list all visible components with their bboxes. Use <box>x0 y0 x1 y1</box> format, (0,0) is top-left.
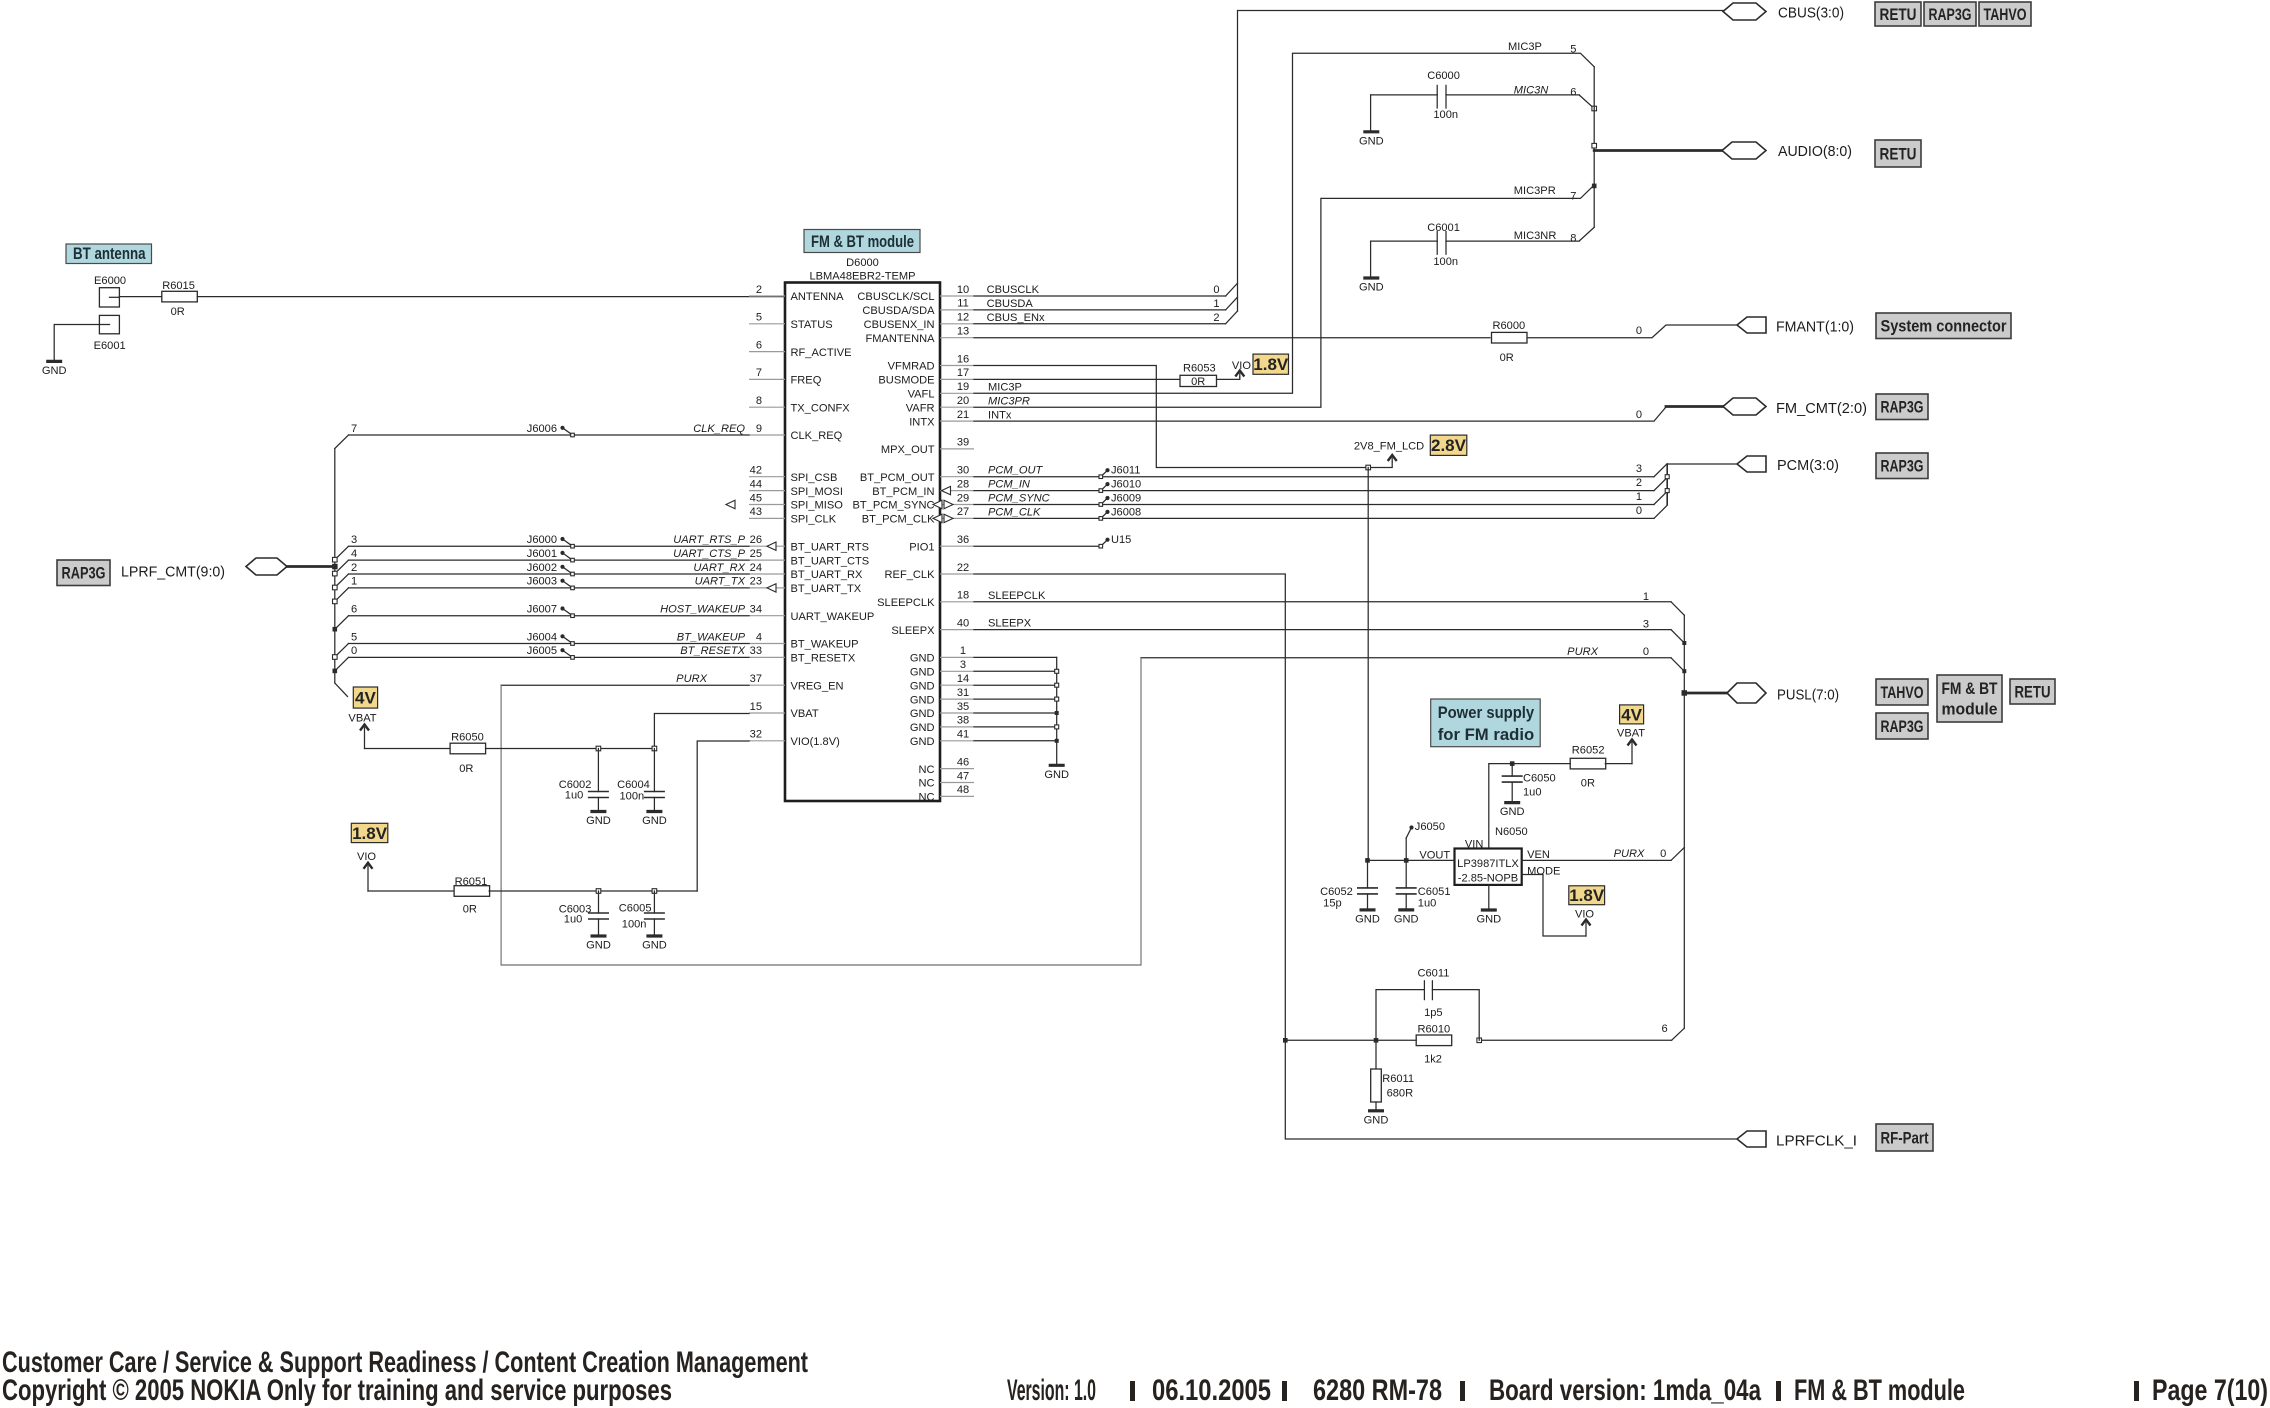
wire GND pins to ground <box>974 657 1059 765</box>
node LPRFCLK_I <box>1737 1131 1766 1147</box>
svg-text:R6052: R6052 <box>1572 745 1605 757</box>
svg-text:25: 25 <box>750 548 762 560</box>
svg-text:C6000: C6000 <box>1427 70 1460 82</box>
svg-text:1: 1 <box>1636 491 1642 503</box>
svg-text:J6007: J6007 <box>527 604 557 616</box>
pin 15 VBAT <box>749 701 819 720</box>
svg-text:GND: GND <box>642 940 667 952</box>
svg-text:3: 3 <box>960 659 966 671</box>
svg-text:module: module <box>1942 701 1998 719</box>
RETU label (AUDIO) <box>1875 140 1921 167</box>
svg-text:REF_CLK: REF_CLK <box>885 569 936 581</box>
wire R6010 left to filter node <box>1285 1039 1416 1041</box>
wire R6011 to ground <box>1375 1102 1377 1111</box>
svg-text:SPI_CLK: SPI_CLK <box>791 514 837 526</box>
svg-text:1u0: 1u0 <box>565 790 584 802</box>
svg-text:9: 9 <box>756 423 762 435</box>
power flag 1.8V (R6053) <box>1253 354 1289 374</box>
svg-text:6: 6 <box>351 604 357 616</box>
svg-text:0: 0 <box>351 645 357 657</box>
svg-text:7: 7 <box>1570 191 1576 203</box>
power flag 1.8V (left) <box>351 823 388 842</box>
power VIO arrow (R6053) <box>1239 374 1241 378</box>
svg-text:CBUSDA: CBUSDA <box>987 298 1034 310</box>
wire CBUSCLK (bit 0) <box>974 283 1238 296</box>
ground (N6050) <box>1481 908 1497 911</box>
svg-text:STATUS: STATUS <box>791 319 833 331</box>
svg-text:29: 29 <box>957 492 969 504</box>
svg-text:2.8V: 2.8V <box>1431 436 1467 455</box>
pin 31 GND <box>910 687 974 706</box>
ground (C6003) <box>591 934 607 937</box>
svg-text:FMANTENNA: FMANTENNA <box>865 333 935 345</box>
svg-text:ANTENNA: ANTENNA <box>791 291 845 303</box>
svg-text:100n: 100n <box>620 790 645 802</box>
node AUDIO(8:0) <box>1594 149 1722 152</box>
svg-text:BT_PCM_IN: BT_PCM_IN <box>872 486 934 498</box>
capacitor C6001 100n <box>1371 222 1595 268</box>
wire PCM_CLK <box>974 505 1667 519</box>
wire UART_CTS_P (bit 4) <box>333 548 750 576</box>
pin 1 GND <box>910 645 974 664</box>
wire SLEEPCLK (bit 1) <box>974 590 1684 615</box>
svg-text:HOST_WAKEUP: HOST_WAKEUP <box>660 604 745 616</box>
TAHVO label (CBUS) <box>1979 2 2031 26</box>
pin 21 INTX <box>909 409 974 428</box>
svg-text:100n: 100n <box>1433 256 1458 268</box>
svg-text:J6001: J6001 <box>527 548 557 560</box>
svg-text:GND: GND <box>910 653 935 665</box>
svg-text:18: 18 <box>957 590 969 602</box>
svg-text:0R: 0R <box>459 763 473 775</box>
test pad J6000 <box>527 534 575 548</box>
pin 23 direction arrow <box>767 584 776 592</box>
svg-text:PCM_SYNC: PCM_SYNC <box>988 493 1051 505</box>
svg-text:35: 35 <box>957 701 969 713</box>
capacitor C6011 1p5 <box>1376 967 1479 1040</box>
svg-text:MIC3P: MIC3P <box>1508 41 1542 53</box>
power flag 4V (left) <box>353 687 377 708</box>
RAP3G label (LPRF_CMT) <box>57 560 110 586</box>
wire E6001 to ground <box>54 325 99 362</box>
pin 27 direction arrows <box>933 514 942 522</box>
svg-text:680R: 680R <box>1387 1088 1414 1100</box>
svg-text:MIC3N: MIC3N <box>1514 84 1550 96</box>
svg-text:RETU: RETU <box>1880 6 1917 24</box>
svg-text:PCM_CLK: PCM_CLK <box>988 506 1041 518</box>
svg-text:UART_RX: UART_RX <box>693 562 745 574</box>
test pad J6002 <box>527 562 575 576</box>
wire MODE to VIO <box>1522 875 1586 937</box>
svg-text:N6050: N6050 <box>1495 826 1528 838</box>
wire FMANTENNA (pin13) <box>974 337 1490 339</box>
svg-text:GND: GND <box>1359 282 1384 294</box>
wire SLEEPX (bit 3) <box>974 618 1686 645</box>
svg-text:PCM_IN: PCM_IN <box>988 479 1031 491</box>
bus CBUS vertical + top run <box>1238 11 1724 312</box>
op-amp D6000 LBMA48EBR2-TEMP main IC body <box>785 257 940 801</box>
svg-text:GND: GND <box>1500 806 1525 818</box>
svg-text:32: 32 <box>750 729 762 741</box>
svg-text:42: 42 <box>750 465 762 477</box>
svg-text:BT_PCM_SYNC: BT_PCM_SYNC <box>853 500 935 512</box>
pin 13 FMANTENNA <box>865 326 974 345</box>
svg-text:FM_CMT(2:0): FM_CMT(2:0) <box>1776 400 1867 417</box>
svg-text:RF-Part: RF-Part <box>1881 1129 1929 1147</box>
capacitor C6002 1u0 <box>559 749 609 812</box>
svg-text:TX_CONFX: TX_CONFX <box>791 402 851 414</box>
antenna pad E6000 <box>94 275 126 307</box>
svg-text:SPI_MISO: SPI_MISO <box>791 500 844 512</box>
pin 41 GND <box>910 729 974 748</box>
RAP3G label (PUSL) <box>1876 713 1928 739</box>
svg-text:VBAT: VBAT <box>791 708 819 720</box>
ground (C6051) <box>1398 908 1414 911</box>
svg-text:47: 47 <box>957 770 969 782</box>
wire PURX routing loop <box>501 658 1141 965</box>
svg-text:J6009: J6009 <box>1111 493 1141 505</box>
svg-text:BT antenna: BT antenna <box>73 244 146 263</box>
test pad J6003 <box>527 576 575 590</box>
svg-text:UART_CTS_P: UART_CTS_P <box>673 548 746 560</box>
wire MIC3P (VAFL pin19) <box>974 41 1594 394</box>
svg-text:1.8V: 1.8V <box>1253 355 1289 374</box>
svg-text:RETU: RETU <box>2015 683 2051 701</box>
pin 36 PIO1 <box>909 534 974 553</box>
svg-text:33: 33 <box>750 645 762 657</box>
svg-text:6280 RM-78: 6280 RM-78 <box>1313 1374 1442 1407</box>
wire UART_TX (bit 1) <box>333 576 750 604</box>
svg-text:RAP3G: RAP3G <box>1929 6 1972 24</box>
ground (C6001) <box>1363 276 1379 279</box>
wire UART_RTS_P (bit 3) <box>333 534 750 562</box>
svg-text:21: 21 <box>957 409 969 421</box>
pin 30 BT_PCM_OUT <box>860 465 974 484</box>
resistor R6000 0R <box>1492 320 1528 364</box>
svg-text:23: 23 <box>750 576 762 588</box>
svg-text:FMANT(1:0): FMANT(1:0) <box>1776 319 1854 336</box>
ground (C6050) <box>1504 801 1520 804</box>
svg-text:PURX: PURX <box>1614 848 1645 860</box>
wire MIC3PR (VAFR pin20) <box>974 184 1597 408</box>
svg-text:for FM radio: for FM radio <box>1438 725 1535 744</box>
svg-text:20: 20 <box>957 395 969 407</box>
power flag 2.8V <box>1430 435 1467 455</box>
svg-text:3: 3 <box>1643 619 1649 631</box>
pin 3 GND <box>910 659 974 678</box>
wire VFMRAD to 2V8_FM_LCD rail <box>974 366 1368 468</box>
svg-text:J6010: J6010 <box>1111 479 1141 491</box>
svg-text:GND: GND <box>1044 769 1069 781</box>
pin 14 GND <box>910 673 974 692</box>
svg-text:7: 7 <box>756 367 762 379</box>
svg-text:CLK_REQ: CLK_REQ <box>693 423 745 435</box>
wire UART_RX (bit 2) <box>333 562 750 590</box>
svg-text:VIO: VIO <box>357 851 376 863</box>
node PCM(3:0) <box>1667 463 1737 465</box>
svg-text:NC: NC <box>918 792 934 804</box>
wire R6000 to FMANT <box>1528 325 1737 338</box>
svg-text:C6050: C6050 <box>1523 772 1556 784</box>
svg-text:BT_RESETX: BT_RESETX <box>680 645 745 657</box>
pin 29 BT_PCM_SYNC <box>853 492 975 511</box>
antenna pad E6001 <box>94 315 126 352</box>
svg-text:BT_WAKEUP: BT_WAKEUP <box>791 639 859 651</box>
ground (C6002) <box>590 810 606 813</box>
svg-text:NC: NC <box>918 764 934 776</box>
svg-text:C6005: C6005 <box>619 902 652 914</box>
bus AUDIO vertical <box>1593 67 1595 228</box>
svg-text:0: 0 <box>1636 409 1642 421</box>
ground (C6052) <box>1360 908 1376 911</box>
svg-text:FM & BT module: FM & BT module <box>1794 1374 1965 1407</box>
svg-text:1.8V: 1.8V <box>1569 886 1605 905</box>
wire R6051 to VIO pin <box>489 890 697 892</box>
wire R6053 to VIO <box>1217 377 1240 379</box>
pin 12 CBUSENX_IN <box>864 312 974 331</box>
svg-text:-2.85-NOPB: -2.85-NOPB <box>1458 873 1518 885</box>
svg-text:45: 45 <box>750 492 762 504</box>
svg-text:GND: GND <box>1359 135 1384 147</box>
wire C6001 to ground <box>1370 241 1372 278</box>
pin 33 BT_RESETX <box>749 645 856 664</box>
pin 39 MPX_OUT <box>881 437 974 456</box>
resistor R6052 0R <box>1570 745 1606 790</box>
ground (D6000) <box>1049 764 1065 767</box>
svg-text:R6015: R6015 <box>162 280 195 292</box>
svg-text:31: 31 <box>957 687 969 699</box>
svg-text:GND: GND <box>910 736 935 748</box>
test pad J6006 <box>527 423 575 437</box>
svg-text:GND: GND <box>910 694 935 706</box>
svg-text:SLEEPCLK: SLEEPCLK <box>877 597 935 609</box>
pin 44 SPI_MOSI <box>749 478 843 497</box>
pin 5 STATUS <box>749 312 833 331</box>
svg-text:RAP3G: RAP3G <box>1881 718 1924 736</box>
svg-text:44: 44 <box>750 478 762 490</box>
pin 26 direction arrow <box>767 542 776 550</box>
pin 48 NC <box>918 784 974 803</box>
pin 6 RF_ACTIVE <box>749 339 852 358</box>
svg-text:3: 3 <box>351 534 357 546</box>
svg-text:BT_UART_CTS: BT_UART_CTS <box>791 555 870 567</box>
wire CBUSDA (bit 1) <box>974 297 1238 310</box>
wire PCM_OUT <box>974 463 1667 477</box>
pin 38 GND <box>910 715 974 734</box>
node PUSL(7:0) <box>1684 692 1727 695</box>
wire BT_RESETX (bit 0) <box>333 645 750 673</box>
svg-text:15: 15 <box>750 701 762 713</box>
test pad J6050 <box>1406 821 1445 838</box>
svg-text:36: 36 <box>957 534 969 546</box>
svg-text:PURX: PURX <box>1567 646 1598 658</box>
svg-text:Version: 1.0: Version: 1.0 <box>1007 1374 1096 1407</box>
node FMANT(1:0) <box>1737 317 1766 333</box>
svg-text:4: 4 <box>756 631 762 643</box>
RAP3G label (PCM) <box>1876 453 1928 479</box>
pin 8 TX_CONFX <box>749 395 850 414</box>
svg-text:46: 46 <box>957 756 969 768</box>
ground (R6011) <box>1368 1109 1384 1112</box>
svg-text:1.8V: 1.8V <box>352 824 388 843</box>
svg-text:06.10.2005: 06.10.2005 <box>1152 1374 1271 1407</box>
svg-text:6: 6 <box>1662 1023 1668 1035</box>
capacitor C6004 100n <box>617 749 665 812</box>
pin 20 VAFR <box>906 395 974 414</box>
svg-text:17: 17 <box>957 367 969 379</box>
svg-text:100n: 100n <box>1433 109 1458 121</box>
svg-text:4V: 4V <box>355 689 376 708</box>
svg-text:BT_PCM_CLK: BT_PCM_CLK <box>862 514 935 526</box>
RETU label (PUSL) <box>2010 679 2055 704</box>
svg-text:5: 5 <box>756 312 762 324</box>
svg-text:TAHVO: TAHVO <box>1984 6 2027 24</box>
svg-text:MODE: MODE <box>1527 866 1560 878</box>
pin 11 CBUSDA/SDA <box>862 298 974 317</box>
svg-text:SPI_CSB: SPI_CSB <box>791 472 838 484</box>
footer text <box>2 1346 2268 1407</box>
svg-text:J6002: J6002 <box>527 562 557 574</box>
resistor R6015 0R <box>162 280 198 318</box>
svg-text:28: 28 <box>957 478 969 490</box>
test pad J6010 <box>1099 479 1141 493</box>
svg-text:TAHVO: TAHVO <box>1881 684 1924 702</box>
svg-text:VOUT: VOUT <box>1419 850 1450 862</box>
svg-text:26: 26 <box>750 534 762 546</box>
svg-text:48: 48 <box>957 784 969 796</box>
pin 17 BUSMODE <box>878 367 974 386</box>
pin 26 BT_UART_RTS <box>749 534 869 553</box>
svg-text:J6004: J6004 <box>527 631 557 643</box>
svg-text:4V: 4V <box>1621 705 1642 724</box>
pin 43 SPI_CLK <box>749 506 837 525</box>
svg-text:1u0: 1u0 <box>564 914 583 926</box>
svg-text:UART_TX: UART_TX <box>695 576 746 588</box>
svg-text:GND: GND <box>1476 914 1501 926</box>
svg-text:30: 30 <box>957 465 969 477</box>
svg-text:VIO: VIO <box>1232 360 1251 372</box>
svg-text:LPRF_CMT(9:0): LPRF_CMT(9:0) <box>121 564 225 581</box>
capacitor C6051 1u0 <box>1396 860 1451 910</box>
power flag 1.8V (MODE) <box>1569 886 1605 905</box>
svg-text:1: 1 <box>960 645 966 657</box>
svg-text:AUDIO(8:0): AUDIO(8:0) <box>1778 143 1852 160</box>
svg-text:Board version: 1mda_04a: Board version: 1mda_04a <box>1489 1374 1761 1407</box>
test pad J6011 <box>1099 465 1140 479</box>
svg-text:2: 2 <box>756 284 762 296</box>
svg-text:34: 34 <box>750 604 762 616</box>
svg-text:27: 27 <box>957 506 969 518</box>
svg-text:GND: GND <box>1355 913 1380 925</box>
svg-text:GND: GND <box>910 680 935 692</box>
svg-text:INTX: INTX <box>909 416 935 428</box>
svg-text:10: 10 <box>957 284 969 296</box>
RF-Part label <box>1876 1124 1933 1151</box>
wire PCM_SYNC <box>974 491 1667 505</box>
test pad J6009 <box>1099 493 1141 507</box>
svg-text:6: 6 <box>756 339 762 351</box>
svg-text:E6001: E6001 <box>94 340 126 352</box>
svg-text:0R: 0R <box>1500 352 1514 364</box>
svg-text:PCM(3:0): PCM(3:0) <box>1777 457 1839 474</box>
svg-text:J6011: J6011 <box>1111 465 1140 477</box>
svg-text:LP3987ITLX: LP3987ITLX <box>1457 858 1519 870</box>
resistor R6053 0R <box>1180 362 1217 388</box>
svg-text:CBUSCLK: CBUSCLK <box>987 284 1040 296</box>
svg-text:LBMA48EBR2-TEMP: LBMA48EBR2-TEMP <box>809 271 915 283</box>
svg-text:GND: GND <box>910 667 935 679</box>
svg-text:24: 24 <box>750 562 762 574</box>
svg-text:16: 16 <box>957 353 969 365</box>
svg-text:43: 43 <box>750 506 762 518</box>
RETU label (CBUS) <box>1875 2 1921 26</box>
svg-text:RAP3G: RAP3G <box>1881 458 1924 476</box>
svg-text:MPX_OUT: MPX_OUT <box>881 444 935 456</box>
wire C6000 to ground <box>1370 95 1372 132</box>
svg-text:RAP3G: RAP3G <box>62 565 106 583</box>
pin 47 NC <box>918 770 974 789</box>
svg-text:C6052: C6052 <box>1320 886 1353 898</box>
FM & BT module title <box>804 230 920 253</box>
svg-text:1k2: 1k2 <box>1424 1053 1442 1065</box>
svg-text:PUSL(7:0): PUSL(7:0) <box>1777 687 1839 704</box>
svg-text:2: 2 <box>1636 477 1642 489</box>
svg-text:GND: GND <box>642 815 667 827</box>
svg-text:1p5: 1p5 <box>1424 1007 1443 1019</box>
svg-text:GND: GND <box>1364 1114 1389 1126</box>
svg-text:D6000: D6000 <box>846 257 879 269</box>
RAP3G label (CBUS) <box>1924 2 1976 26</box>
svg-text:SLEEPX: SLEEPX <box>988 618 1032 630</box>
capacitor C6050 1u0 <box>1502 764 1556 803</box>
svg-text:0: 0 <box>1636 325 1642 337</box>
wire REF_CLK / LPRFCLK_I <box>974 574 1737 1139</box>
svg-text:E6000: E6000 <box>94 275 126 287</box>
ground (C6005) <box>646 934 662 937</box>
svg-text:1: 1 <box>1213 298 1219 310</box>
svg-text:U15: U15 <box>1111 534 1131 546</box>
svg-text:J6003: J6003 <box>527 576 557 588</box>
svg-text:BT_UART_RTS: BT_UART_RTS <box>791 541 870 553</box>
svg-text:J6008: J6008 <box>1111 506 1141 518</box>
wire PIO1 <box>974 545 1102 547</box>
wire PCM_IN <box>974 477 1667 491</box>
svg-text:System connector: System connector <box>1881 318 2008 336</box>
pin 42 SPI_CSB <box>749 465 837 484</box>
svg-text:GND: GND <box>1394 913 1419 925</box>
bus PCM vertical <box>1666 464 1668 506</box>
svg-text:C6051: C6051 <box>1418 886 1451 898</box>
svg-text:4: 4 <box>351 548 357 560</box>
svg-text:1u0: 1u0 <box>1523 786 1542 798</box>
wire VOUT rail <box>1368 859 1455 861</box>
pin 45 SPI_MISO <box>749 492 843 511</box>
power flag 4V (supply) <box>1620 705 1644 724</box>
svg-text:100n: 100n <box>622 919 647 931</box>
resistor R6051 0R <box>454 876 490 915</box>
resistor R6010 1k2 <box>1416 1024 1452 1066</box>
pin 19 VAFL <box>908 381 974 400</box>
svg-text:FREQ: FREQ <box>791 375 822 387</box>
svg-text:11: 11 <box>957 298 969 310</box>
svg-text:BT_PCM_OUT: BT_PCM_OUT <box>860 472 935 484</box>
svg-text:CBUS_ENx: CBUS_ENx <box>987 312 1045 324</box>
wire VEN to PURX <box>1522 848 1685 861</box>
pin 37 VREG_EN <box>749 673 844 692</box>
capacitor C6000 100n <box>1371 70 1597 121</box>
capacitor C6005 100n <box>619 891 665 936</box>
svg-text:14: 14 <box>957 673 969 685</box>
